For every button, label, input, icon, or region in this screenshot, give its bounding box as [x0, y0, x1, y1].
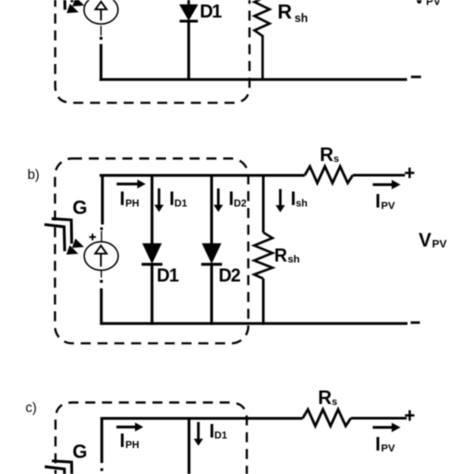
- label IPH (b): [120, 189, 140, 210]
- svg-text:s: s: [332, 397, 338, 408]
- svg-text:PV: PV: [381, 443, 395, 455]
- wire from current source to bottom rail (a): [100, 44, 103, 81]
- wire from current source to bottom rail (b): [100, 288, 103, 325]
- series resistor Rs (c): [303, 409, 351, 426]
- shunt resistor Rsh branch (b): [254, 174, 272, 325]
- svg-text:V: V: [419, 231, 432, 252]
- label IPV (c): [375, 434, 395, 455]
- left wire from top rail to current source (b): [101, 174, 104, 225]
- bottom rail wire (a): [100, 78, 407, 81]
- dashed PV-cell boundary box (circuit a): [55, 0, 249, 103]
- label Ish (b): [291, 189, 308, 210]
- top terminal dot of current source (b): [100, 227, 103, 230]
- svg-text:D2: D2: [219, 266, 241, 286]
- dashed PV-cell boundary box (circuit c): [56, 403, 247, 474]
- label V_PV (b): [419, 231, 448, 252]
- svg-text:s: s: [334, 154, 340, 165]
- label Rsh (a): [278, 2, 308, 26]
- G irradiance arrow 2 (b): [44, 225, 78, 255]
- label Rs (c): [318, 388, 338, 409]
- svg-text:PH: PH: [125, 198, 139, 209]
- svg-text:b): b): [28, 167, 40, 182]
- IPV arrow (c): [373, 423, 401, 432]
- diode D2 branch (b): [201, 174, 222, 325]
- label Rs (b): [320, 145, 340, 166]
- svg-text:sh: sh: [296, 198, 308, 209]
- diode D1 (circuit a): [179, 0, 198, 80]
- svg-text:PV: PV: [432, 239, 447, 251]
- plus terminal mark of current source (b): [89, 234, 96, 241]
- Ish arrow (b): [276, 189, 285, 212]
- shunt resistor Rsh (circuit a): [254, 0, 269, 80]
- left wire from top rail to current source (c): [100, 417, 103, 463]
- label ID2 (b): [229, 189, 247, 210]
- output wire after Rs (c): [351, 417, 407, 420]
- svg-text:R: R: [320, 145, 334, 166]
- svg-text:D1: D1: [214, 431, 227, 442]
- svg-text:I: I: [120, 431, 125, 452]
- diode D1 branch wire (c): [188, 417, 191, 474]
- diode D1 branch (b): [142, 174, 163, 325]
- G irradiance arrow 1 (circuit a): [52, 0, 84, 6]
- ID1 arrow (b): [154, 188, 163, 212]
- svg-text:G: G: [73, 442, 88, 463]
- ID2 arrow (b): [214, 188, 223, 212]
- svg-text:I: I: [375, 434, 380, 455]
- G irradiance arrow 1 (b): [52, 219, 84, 248]
- svg-text:G: G: [73, 198, 88, 219]
- ID1 arrow (c): [194, 422, 203, 446]
- minus output terminal (b): [411, 321, 420, 324]
- bottom rail wire (b): [100, 322, 408, 325]
- minus output terminal (a): [411, 76, 421, 79]
- G irradiance arrow 2 (circuit a): [45, 0, 79, 13]
- svg-text:D1: D1: [200, 1, 222, 22]
- svg-text:I: I: [120, 189, 125, 210]
- top rail wire (c): [100, 417, 302, 420]
- svg-text:D1: D1: [174, 198, 187, 209]
- svg-text:V: V: [413, 0, 426, 8]
- svg-text:D1: D1: [157, 266, 179, 286]
- label IPV (b): [375, 192, 395, 213]
- output wire after Rs (b): [353, 174, 405, 177]
- plus output terminal (b): [405, 168, 414, 179]
- label ID1 (c): [209, 421, 227, 442]
- label ID1 (b): [169, 189, 187, 210]
- minus terminal stub and dot of current source (a): [100, 26, 103, 40]
- top rail wire (b): [100, 174, 305, 177]
- bottom thin stub and dot of current source (b): [100, 270, 103, 283]
- IPV arrow (b): [373, 180, 401, 189]
- series resistor Rs (b): [305, 166, 353, 183]
- IPH arrow (b): [117, 180, 146, 189]
- thin stub above current source (b): [101, 231, 103, 242]
- svg-text:R: R: [318, 388, 332, 409]
- IPH arrow (c): [116, 423, 143, 432]
- plus output terminal (c): [405, 410, 414, 421]
- dashed PV-cell boundary box (circuit b): [55, 159, 248, 344]
- current source IPH ellipse (b): [84, 242, 118, 270]
- G irradiance arrow 2 (c): [45, 467, 65, 474]
- label IPH (c): [120, 431, 140, 452]
- svg-text:PV: PV: [381, 200, 395, 212]
- svg-text:PV: PV: [426, 0, 441, 8]
- label Rsh (b): [274, 245, 300, 265]
- label V_PV fragment (a): [413, 0, 441, 8]
- svg-text:D2: D2: [234, 198, 247, 209]
- svg-text:I: I: [375, 192, 380, 213]
- svg-text:sh: sh: [288, 254, 300, 266]
- current source Iph (circuit a): [84, 0, 118, 24]
- svg-text:c): c): [26, 400, 37, 415]
- G irradiance arrow 1 (c): [52, 461, 72, 474]
- svg-text:PH: PH: [125, 440, 139, 451]
- svg-text:R: R: [278, 2, 293, 24]
- svg-text:R: R: [274, 245, 287, 265]
- top terminal dot of current source (c): [100, 468, 103, 471]
- svg-text:sh: sh: [295, 13, 308, 25]
